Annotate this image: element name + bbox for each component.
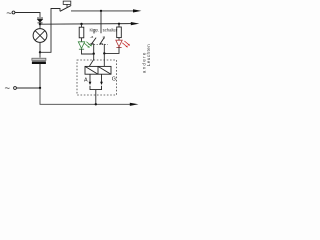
wire LED green to node D [82,49,94,54]
wire node E to coil pin 2 [103,53,105,66]
coil armature pin left with arrow [89,74,92,85]
relay enclosure dashed box [77,60,117,95]
contact -a lever [90,29,96,44]
lamp E1 [33,24,47,52]
svg-text:~: ~ [5,83,11,94]
wire node D to coil pin 1 [89,54,93,67]
svg-text:Leuchten: Leuchten [146,44,150,67]
wire LED red to node E [104,47,119,54]
node A junction dot [39,23,41,25]
label Kippschalter [90,28,118,33]
arrow top rail [133,9,141,12]
node E junction dot [103,52,105,54]
svg-text:~: ~ [6,8,12,19]
mechanical link dashed [89,44,109,46]
wire terminal X2 to node F [17,87,41,89]
svg-text:A: A [84,77,88,83]
LED red V3 [116,40,130,47]
resistor R2 [117,23,122,41]
AC source terminal X2 (~) bottom left [5,83,17,94]
wire contact -a to node D [93,44,95,54]
wire bracket to bottom rail [95,90,97,105]
svg-text:schalter: schalter [103,28,118,33]
LED green V2 [78,42,92,50]
wire top rail from switch [71,10,135,12]
node G junction dot [95,103,97,105]
wire node B to switch S1 [40,9,60,53]
coil armature pin right with arrow [100,74,103,85]
svg-text:G: G [112,77,116,83]
arrow middle rail [131,22,140,25]
wire rail to other circuit (middle rail y24) [40,23,132,26]
contact q lever [99,37,104,44]
relay coil K1 (double coil) [85,66,111,74]
label andere Leuchten (rotated) [141,44,151,73]
armature bracket [90,86,102,90]
diode V1 [37,18,43,23]
switch S1 (pushbutton) [60,1,71,11]
capacitor C1 (electrolytic) [32,52,46,88]
wire node C down to toggle contact q [100,11,102,33]
wire contact q to node E [103,44,105,54]
bottom rail wire [40,88,131,104]
node C junction dot on top rail [100,10,102,12]
resistor R1 [79,23,84,42]
node B junction dot [39,51,41,53]
AC source terminal X1 (~) top left [6,8,15,19]
node D junction dot [93,53,95,55]
wire from terminal X1 to diode [15,13,40,18]
node F junction dot [39,87,41,89]
arrow bottom rail [130,103,139,106]
